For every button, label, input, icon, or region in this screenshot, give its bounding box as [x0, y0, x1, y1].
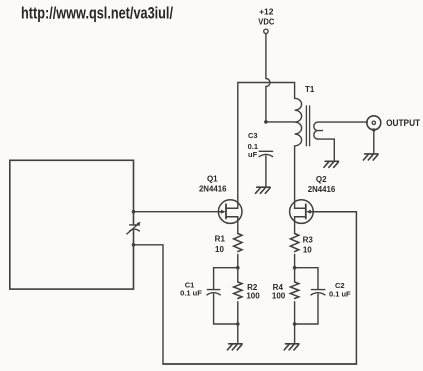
label R1 10 — [215, 234, 226, 253]
wire gate Q1 from box — [134, 211, 219, 213]
svg-text:0.1 uF: 0.1 uF — [329, 289, 351, 298]
resistor R3 — [290, 234, 298, 252]
transformer T1 core — [306, 106, 309, 146]
ground (C3) — [256, 187, 271, 193]
crystal oscillator block (box) — [10, 160, 134, 289]
ground (output connector) — [363, 154, 378, 160]
svg-text:100: 100 — [272, 292, 286, 301]
svg-text:0.1 uF: 0.1 uF — [180, 289, 202, 298]
trimmer capacitor (gap mask on box edge) — [132, 226, 135, 231]
svg-text:uF: uF — [248, 150, 258, 159]
svg-text:R3: R3 — [303, 235, 314, 244]
capacitor C1 — [207, 290, 220, 295]
node bottom junction on box edge — [132, 243, 136, 247]
trimmer capacitor plates — [130, 225, 140, 231]
label R3 10 — [303, 235, 314, 254]
wire Q2 drain to primary bottom — [294, 146, 296, 208]
svg-text:OUTPUT: OUTPUT — [386, 117, 420, 128]
transformer T1 secondary winding — [314, 122, 323, 139]
JFET Q2 — [290, 200, 314, 224]
node center-tap junction — [264, 120, 268, 124]
label R4 100 — [272, 283, 286, 301]
svg-text:T1: T1 — [305, 85, 315, 94]
capacitor C3 — [259, 151, 272, 156]
wire Q1 source down — [237, 217, 239, 343]
node C1/R2 bottom — [236, 322, 240, 326]
svg-text:Q1: Q1 — [207, 174, 218, 183]
wire C3 to ground — [265, 156, 267, 187]
svg-text:C3: C3 — [248, 131, 258, 140]
label C1 0.1 uF — [180, 280, 202, 297]
wire +12 supply down (with hop over drain rail) — [266, 34, 270, 122]
label Q1 2N4416 — [199, 174, 227, 193]
wire Q2 source down — [294, 217, 296, 343]
label C3 0.1 uF — [248, 131, 258, 159]
node gate Q1 junction on box edge — [132, 210, 136, 214]
output connector J1 — [367, 116, 381, 130]
svg-text:2N4416: 2N4416 — [199, 183, 227, 193]
svg-text:100: 100 — [246, 292, 260, 301]
wire C2 branch — [295, 268, 318, 324]
transformer T1 primary winding — [295, 98, 302, 146]
label R2 100 — [246, 283, 260, 301]
svg-text:http://www.qsl.net/va3iul/: http://www.qsl.net/va3iul/ — [21, 4, 173, 23]
wire secondary top to output connector — [318, 121, 368, 123]
label C2 0.1 uF — [329, 281, 351, 298]
wire center tap to transformer primary — [266, 121, 295, 123]
svg-text:Q2: Q2 — [316, 175, 327, 184]
node Q1 source / C1 / R2 — [236, 266, 240, 270]
wire bottom rail — [163, 363, 356, 365]
svg-text:VDC: VDC — [258, 16, 274, 26]
wire box to bottom rail — [134, 245, 164, 364]
wire right rail to Q2 gate — [313, 212, 357, 364]
wire output connector to ground — [373, 130, 375, 154]
svg-text:10: 10 — [303, 245, 312, 254]
resistor R4 — [290, 282, 298, 298]
ground (Q1 source) — [227, 344, 242, 350]
node output connector bottom — [372, 128, 375, 131]
node Q2 source / C2 / R4 — [293, 266, 297, 270]
svg-text:2N4416: 2N4416 — [308, 184, 336, 194]
label Q2 2N4416 — [308, 175, 336, 194]
resistor R2 — [234, 282, 242, 298]
svg-text:R1: R1 — [215, 234, 226, 243]
trimmer capacitor arrow — [127, 224, 139, 234]
wire secondary bottom to ground — [318, 139, 335, 161]
capacitor C2 — [311, 290, 325, 295]
ground (secondary) — [324, 161, 339, 167]
svg-text:+12: +12 — [259, 7, 274, 17]
ground (Q2 source) — [284, 344, 299, 350]
node C2/R4 bottom — [293, 322, 297, 326]
svg-text:R2: R2 — [247, 283, 258, 292]
wire C1 branch — [214, 268, 238, 324]
svg-text:R4: R4 — [273, 283, 284, 292]
svg-text:10: 10 — [215, 245, 224, 254]
supply +12 VDC label — [258, 7, 274, 27]
JFET Q1 — [218, 200, 242, 224]
resistor R1 — [234, 234, 242, 252]
supply terminal — [264, 29, 268, 33]
wire drain rail Q1 to primary top — [238, 83, 295, 209]
